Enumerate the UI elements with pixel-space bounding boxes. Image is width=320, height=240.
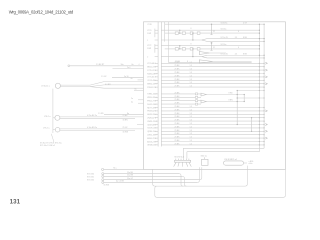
svg-text:4a: 4a xyxy=(131,102,133,104)
svg-text:25 BK: 25 BK xyxy=(175,82,181,84)
svg-text:S7 2a 25: S7 2a 25 xyxy=(221,54,228,56)
svg-text:8: 8 xyxy=(191,44,192,46)
svg-text:25 BK: 25 BK xyxy=(175,79,181,81)
svg-text:2.5: 2.5 xyxy=(235,37,238,39)
svg-text:25 BK: 25 BK xyxy=(175,99,181,101)
svg-text:8 RD: 8 RD xyxy=(229,93,234,95)
svg-text:1.5 RD: 1.5 RD xyxy=(98,113,104,115)
svg-text:S7 2a 25: S7 2a 25 xyxy=(221,37,228,39)
svg-text:2.5: 2.5 xyxy=(235,54,238,56)
svg-text:LT30-12 a: LT30-12 a xyxy=(41,86,50,88)
svg-text:S2 16a: S2 16a xyxy=(221,29,227,31)
svg-text:4 16a BN 2a: 4 16a BN 2a xyxy=(87,127,97,129)
svg-text:31 WS: 31 WS xyxy=(104,184,110,186)
svg-text:25 BK: 25 BK xyxy=(175,116,181,118)
svg-text:LT73-62 4: LT73-62 4 xyxy=(147,77,155,79)
svg-text:C96 8 BR25 a1: C96 8 BR25 a1 xyxy=(224,159,237,161)
svg-text:12: 12 xyxy=(213,47,215,49)
svg-text:LT72: LT72 xyxy=(147,45,151,47)
svg-text:6: 6 xyxy=(238,47,239,49)
svg-text:1.5: 1.5 xyxy=(190,86,193,88)
svg-text:25 BK: 25 BK xyxy=(175,113,181,115)
svg-text:S75 K32: S75 K32 xyxy=(87,180,94,182)
svg-text:4 25a BK 2a: 4 25a BK 2a xyxy=(87,115,97,117)
svg-text:25 BK: 25 BK xyxy=(175,120,181,122)
svg-text:25 BK: 25 BK xyxy=(175,65,181,67)
svg-text:8a: 8a xyxy=(132,64,134,66)
svg-text:S2 16a: S2 16a xyxy=(221,44,227,46)
svg-text:2a 4: 2a 4 xyxy=(127,67,130,69)
svg-text:25 BK: 25 BK xyxy=(175,137,181,139)
svg-text:a10x: a10x xyxy=(249,163,253,165)
svg-text:6a: 6a xyxy=(135,89,137,91)
svg-text:S75 16a 2.5 BK x2: S75 16a 2.5 BK x2 xyxy=(40,145,55,147)
svg-text:XK175 8a 2: XK175 8a 2 xyxy=(174,156,184,158)
svg-text:25 BK: 25 BK xyxy=(175,96,181,98)
svg-text:16 WS: 16 WS xyxy=(123,131,129,133)
svg-text:4a: 4a xyxy=(131,78,133,80)
svg-text:8 BN: 8 BN xyxy=(229,100,234,102)
svg-text:AG13-21 4: AG13-21 4 xyxy=(147,140,156,143)
svg-text:25 BK: 25 BK xyxy=(175,130,181,132)
svg-text:Wrg_0069A_02of12_104d_21102_ut: Wrg_0069A_02of12_104d_21102_utd xyxy=(9,10,74,15)
svg-text:1.5: 1.5 xyxy=(190,62,193,64)
svg-text:1: 1 xyxy=(147,40,148,42)
svg-text:1.5: 1.5 xyxy=(190,82,193,84)
svg-text:1.5: 1.5 xyxy=(190,137,193,139)
svg-text:25 BK: 25 BK xyxy=(175,72,181,74)
svg-text:131: 131 xyxy=(10,199,21,206)
svg-text:LT70-08 2: LT70-08 2 xyxy=(147,63,155,65)
svg-text:25 BK: 25 BK xyxy=(175,86,181,88)
svg-text:1.5: 1.5 xyxy=(190,106,193,108)
svg-text:C170: C170 xyxy=(147,24,152,26)
svg-text:1.5: 1.5 xyxy=(190,133,193,135)
svg-text:25a BK: 25a BK xyxy=(127,172,134,174)
svg-text:1.5: 1.5 xyxy=(190,75,193,77)
svg-text:1.5: 1.5 xyxy=(190,116,193,118)
svg-text:8: 8 xyxy=(187,61,188,63)
svg-text:25 BK: 25 BK xyxy=(175,109,181,111)
svg-text:1.5 GY: 1.5 GY xyxy=(101,76,107,78)
svg-text:25 BK: 25 BK xyxy=(175,126,181,128)
svg-text:12W: 12W xyxy=(147,33,151,35)
svg-text:2.5 BK RT: 2.5 BK RT xyxy=(96,64,105,66)
svg-text:1.5: 1.5 xyxy=(190,143,193,145)
svg-text:1.5: 1.5 xyxy=(190,130,193,132)
svg-text:1.5: 1.5 xyxy=(190,120,193,122)
svg-text:1.5: 1.5 xyxy=(190,140,193,142)
svg-text:1.5: 1.5 xyxy=(190,123,193,125)
svg-text:12: 12 xyxy=(213,31,215,33)
svg-text:1.5: 1.5 xyxy=(190,69,193,71)
svg-text:25 BK: 25 BK xyxy=(175,133,181,135)
svg-text:16a: 16a xyxy=(121,64,124,66)
svg-text:8: 8 xyxy=(191,28,192,30)
svg-text:25 BK: 25 BK xyxy=(175,106,181,108)
svg-text:12W: 12W xyxy=(147,48,151,50)
svg-text:K30 1a: K30 1a xyxy=(201,156,208,158)
svg-text:25 BK: 25 BK xyxy=(175,103,181,105)
svg-text:70 a: 70 a xyxy=(113,168,117,170)
svg-text:25 BK: 25 BK xyxy=(175,143,181,145)
svg-text:1.5: 1.5 xyxy=(190,72,193,74)
svg-text:1.5: 1.5 xyxy=(190,65,193,67)
svg-text:S216 8a: S216 8a xyxy=(221,23,228,25)
svg-text:LT9-2 a: LT9-2 a xyxy=(43,128,50,130)
svg-text:25 GY: 25 GY xyxy=(123,127,129,129)
svg-text:25 BK: 25 BK xyxy=(175,140,181,142)
svg-text:4: 4 xyxy=(139,64,140,66)
svg-text:25a BN: 25a BN xyxy=(127,175,134,177)
svg-text:LT8-2 a: LT8-2 a xyxy=(44,116,51,118)
svg-text:2a 16: 2a 16 xyxy=(124,76,129,78)
svg-text:S75 K30: S75 K30 xyxy=(87,174,94,176)
svg-text:25 BK: 25 BK xyxy=(175,92,181,94)
svg-text:2a: 2a xyxy=(131,98,133,100)
svg-text:25 BK: 25 BK xyxy=(175,61,181,63)
svg-text:25 BK: 25 BK xyxy=(175,69,181,71)
svg-text:25 BK: 25 BK xyxy=(175,123,181,125)
svg-text:1.5: 1.5 xyxy=(190,126,193,128)
svg-text:6: 6 xyxy=(238,31,239,33)
svg-text:25 BK: 25 BK xyxy=(123,115,129,117)
svg-text:2: 2 xyxy=(147,56,148,58)
svg-text:LT70: LT70 xyxy=(147,30,151,32)
svg-text:6.0 BR: 6.0 BR xyxy=(105,84,111,86)
svg-text:1.5: 1.5 xyxy=(190,79,193,81)
svg-text:25a GY: 25a GY xyxy=(127,178,134,180)
svg-text:16 BN: 16 BN xyxy=(123,120,129,122)
svg-text:4a 1.5 BK: 4a 1.5 BK xyxy=(116,181,125,183)
svg-text:25 BK: 25 BK xyxy=(175,75,181,77)
svg-text:1.5: 1.5 xyxy=(190,113,193,115)
svg-text:1.5: 1.5 xyxy=(190,109,193,111)
svg-text:S75 K31: S75 K31 xyxy=(87,176,94,178)
